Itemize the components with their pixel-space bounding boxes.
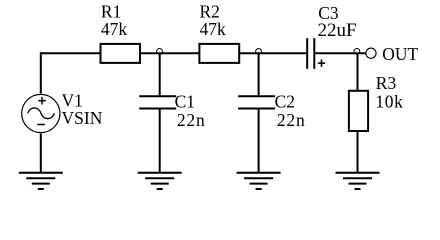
wire: C2 to ground [258,109,260,173]
svg-text:22uF: 22uF [318,20,357,41]
node A junction [157,49,163,55]
wire: V1 top lead [40,52,42,93]
wire: C1 to ground [159,109,161,173]
resistor R1 [101,44,141,63]
node OUT junction [354,49,360,55]
wire: node OUT down to R3 [357,53,359,91]
capacitor C3 (polarized) [307,38,314,69]
wire: R1 to R2 [140,52,199,54]
node B junction [256,49,262,55]
svg-text:C1: C1 [175,92,195,112]
ground (R3) [336,173,380,189]
svg-text:R3: R3 [376,73,397,93]
resistor R2 [199,44,239,63]
capacitor C1 [139,96,176,108]
voltage source V1 [22,94,60,132]
wire: C3 to OUT [315,52,366,54]
svg-text:47k: 47k [101,19,128,39]
svg-text:VSIN: VSIN [62,108,103,128]
wire: node B down to C2 [258,53,260,96]
svg-text:22n: 22n [277,110,305,130]
resistor R3 [349,91,368,131]
ground (V1) [19,173,63,189]
wire: node A down to C1 [159,53,161,96]
svg-text:OUT: OUT [382,44,418,64]
C3 plus mark [318,60,325,68]
OUT terminal pin [366,48,376,58]
svg-text:10k: 10k [375,92,403,112]
svg-text:22n: 22n [177,110,205,130]
wire: V1 bottom lead to ground [40,134,42,173]
ground (C1) [138,173,182,189]
wire: R2 to C3 [239,52,306,54]
capacitor C2 [238,96,275,108]
svg-text:47k: 47k [200,19,227,39]
wire: main horizontal net from V1 to R1 [40,52,101,54]
svg-text:C2: C2 [275,92,295,112]
ground (C2) [237,173,281,189]
wire: R3 to ground [357,131,359,173]
